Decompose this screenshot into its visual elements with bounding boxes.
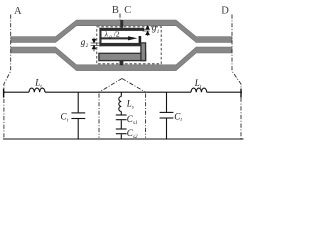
svg-text:C: C bbox=[124, 5, 131, 16]
svg-text:s1: s1 bbox=[133, 121, 137, 126]
svg-text:λ: λ bbox=[104, 30, 109, 39]
svg-text:1: 1 bbox=[157, 30, 160, 35]
svg-text:B: B bbox=[112, 5, 119, 16]
svg-text:s2: s2 bbox=[133, 135, 138, 140]
svg-text:D: D bbox=[221, 5, 229, 16]
svg-text:s: s bbox=[132, 105, 134, 110]
svg-text:A: A bbox=[14, 6, 22, 17]
svg-text:/2: /2 bbox=[114, 30, 120, 39]
